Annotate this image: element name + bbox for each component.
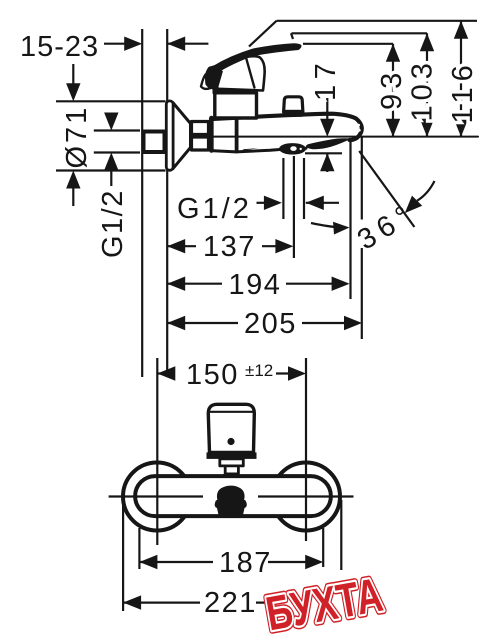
- wall pipe square: [144, 132, 165, 153]
- dim 17 upper overlay: [320, 98, 334, 137]
- dim 17 vertical line upper: [326, 98, 328, 122]
- diverter knob base: [284, 110, 303, 117]
- body bottom ledge sliver: [242, 148, 259, 150]
- arrow 116 top: [454, 21, 468, 39]
- arrow 103 top: [420, 33, 434, 51]
- dim 137 line: [167, 245, 277, 247]
- pipe dim lower stem to G1/2 label: [110, 170, 112, 186]
- aerator ellipse: [279, 143, 306, 154]
- lever inner diagonal: [246, 59, 254, 88]
- dimension 15-23 line left stem: [104, 43, 126, 45]
- svg-text:±12: ±12: [245, 361, 273, 380]
- front view: 150 dim extension / centreline left: [156, 358, 158, 545]
- horizontal centreline: [109, 495, 354, 497]
- 221 dim line: [123, 601, 276, 603]
- arrow G1/2 outlet right: [306, 196, 324, 210]
- body bar: [135, 476, 331, 516]
- spout front blob: [215, 486, 247, 515]
- escutcheon rim: [166, 101, 173, 170]
- arrow pipe bottom: [104, 153, 118, 171]
- 187 extension right: [322, 528, 324, 567]
- body bottom edge: [211, 148, 306, 152]
- arrow 93 bottom: [386, 119, 400, 137]
- dim 194 line: [167, 283, 333, 285]
- leader from lever tip to 103 line: [291, 33, 293, 39]
- svg-text:БУХТА: БУХТА: [262, 568, 387, 640]
- arrow 15-23 right: [167, 37, 185, 51]
- arrow O71 top: [66, 83, 80, 101]
- svg-text:93: 93: [376, 68, 408, 110]
- dim 93 top line: [303, 43, 393, 45]
- pipe thread top extension line: [94, 129, 140, 131]
- arrow G1/2 outlet left: [264, 196, 282, 210]
- body top edge and spout right cap: [211, 114, 362, 140]
- G1/2 outlet dim right stem: [306, 202, 339, 204]
- arrow 116 bottom: [454, 119, 468, 137]
- svg-text:221: 221: [204, 587, 257, 619]
- reference plane line (body contour, spout outlet level): [212, 136, 478, 138]
- pipe thread bottom extension line: [94, 151, 140, 153]
- wall line left: [141, 29, 143, 377]
- arrow 103 bottom: [420, 119, 434, 137]
- escutcheon cone: [173, 103, 191, 169]
- right escutcheon circle: [272, 463, 340, 531]
- 36 degree diagonal line: [359, 151, 414, 227]
- svg-text:187: 187: [219, 547, 272, 579]
- dimension Ø71 upper stem: [72, 64, 74, 85]
- svg-text:150: 150: [186, 359, 239, 391]
- svg-text:116: 116: [447, 59, 479, 123]
- dim 17 vertical line lower: [326, 153, 328, 172]
- dimension Ø71 lower stem: [72, 187, 74, 206]
- svg-text:194: 194: [229, 269, 282, 301]
- handle neck cap: [223, 474, 238, 480]
- lever black band: [212, 43, 302, 76]
- svg-text:205: 205: [244, 308, 297, 340]
- outlet centre extension line: [293, 156, 295, 258]
- svg-text:G1/2: G1/2: [97, 189, 129, 258]
- spout lip black band: [306, 138, 351, 149]
- dim 116 vertical line: [460, 21, 462, 137]
- body seam: [235, 118, 239, 152]
- handle front outline: [208, 404, 254, 452]
- body left edge: [209, 118, 214, 151]
- outlet left extension line: [282, 158, 284, 219]
- 36 degree arc arrow right: [417, 181, 434, 201]
- svg-text:17: 17: [310, 58, 342, 101]
- Ø71 bottom extension line: [56, 169, 166, 171]
- diverter knob: [284, 97, 303, 112]
- arrow 17 upper: [320, 119, 334, 137]
- arrow 17 lower: [320, 153, 334, 171]
- arrow 187 left: [139, 555, 157, 569]
- svg-text:137: 137: [203, 231, 256, 263]
- Ø71 top extension line: [56, 100, 166, 102]
- front view: 150 dim extension / centreline right: [305, 358, 307, 541]
- centrelines over front view: [109, 358, 354, 545]
- arrow pipe top: [104, 113, 118, 131]
- dim 116 top line: [277, 20, 478, 22]
- handle dot: [227, 438, 234, 445]
- connector nut upper: [192, 122, 209, 135]
- 150 dim line stems: [157, 372, 289, 374]
- arrow 150 right: [288, 366, 306, 380]
- handle base band front: [207, 452, 257, 459]
- 194 extension line: [349, 140, 351, 299]
- arrow 93 top: [386, 44, 400, 62]
- arrow 150 left: [157, 366, 175, 380]
- svg-text:15-23: 15-23: [20, 31, 99, 63]
- 187 extension left: [138, 528, 140, 569]
- 187 dim line: [139, 561, 310, 563]
- 36 degree arc arrow left: [311, 223, 340, 227]
- left escutcheon circle: [123, 463, 191, 531]
- handle neck narrow: [225, 466, 238, 474]
- handle top inner line: [211, 411, 253, 413]
- handle base band: [213, 87, 259, 95]
- leader from lever top to 116 line: [249, 21, 277, 47]
- spout highlight dots: [357, 124, 360, 127]
- aerator speck: [300, 148, 302, 150]
- outlet right extension line: [303, 158, 305, 219]
- dim 103 top line: [292, 32, 428, 34]
- arrow 137 right: [275, 239, 293, 253]
- aerator slot: [290, 146, 296, 151]
- svg-text:103: 103: [407, 58, 439, 121]
- arrow 221 left: [123, 595, 141, 609]
- dimension 15-23 right stem: [167, 43, 208, 45]
- 205 extension line upper: [361, 137, 363, 220]
- arrow O71 bottom: [66, 171, 80, 189]
- arrow 36deg arc right tip: [405, 196, 422, 214]
- svg-text:G1/2: G1/2: [177, 193, 252, 225]
- arrow 205 left: [167, 316, 185, 330]
- G1/2 outlet dim left stem: [257, 202, 267, 204]
- lever white underside: [210, 56, 265, 90]
- arrows (filled): [66, 21, 468, 610]
- arrow 194 left: [167, 277, 185, 291]
- arrow 137 left: [167, 239, 185, 253]
- lever flap: [201, 74, 211, 89]
- dim 205 line: [167, 322, 346, 324]
- arrow 15-23 left: [124, 37, 142, 51]
- connector nut lower: [192, 137, 209, 150]
- arrow 205 right: [344, 316, 362, 330]
- arrow 36deg arc left tip: [333, 222, 350, 235]
- 221 extension left: [122, 500, 124, 611]
- svg-text:Ø71: Ø71: [61, 105, 93, 169]
- dim 103 vertical line: [426, 33, 428, 137]
- watermark БУХТА: [262, 568, 387, 640]
- arrow 194 right: [332, 277, 350, 291]
- 205 extension line lower: [361, 248, 363, 339]
- handle neck collar: [220, 459, 244, 466]
- faucet body white fill: [211, 114, 362, 152]
- arrow 187 right: [305, 555, 323, 569]
- cartridge block: [215, 93, 257, 118]
- lever grip end black: [205, 67, 223, 91]
- wall line right (wall surface): [166, 29, 168, 377]
- dim 17 lower extension line: [305, 152, 342, 154]
- 221 extension right: [340, 500, 342, 570]
- dim 93 vertical line: [392, 44, 394, 137]
